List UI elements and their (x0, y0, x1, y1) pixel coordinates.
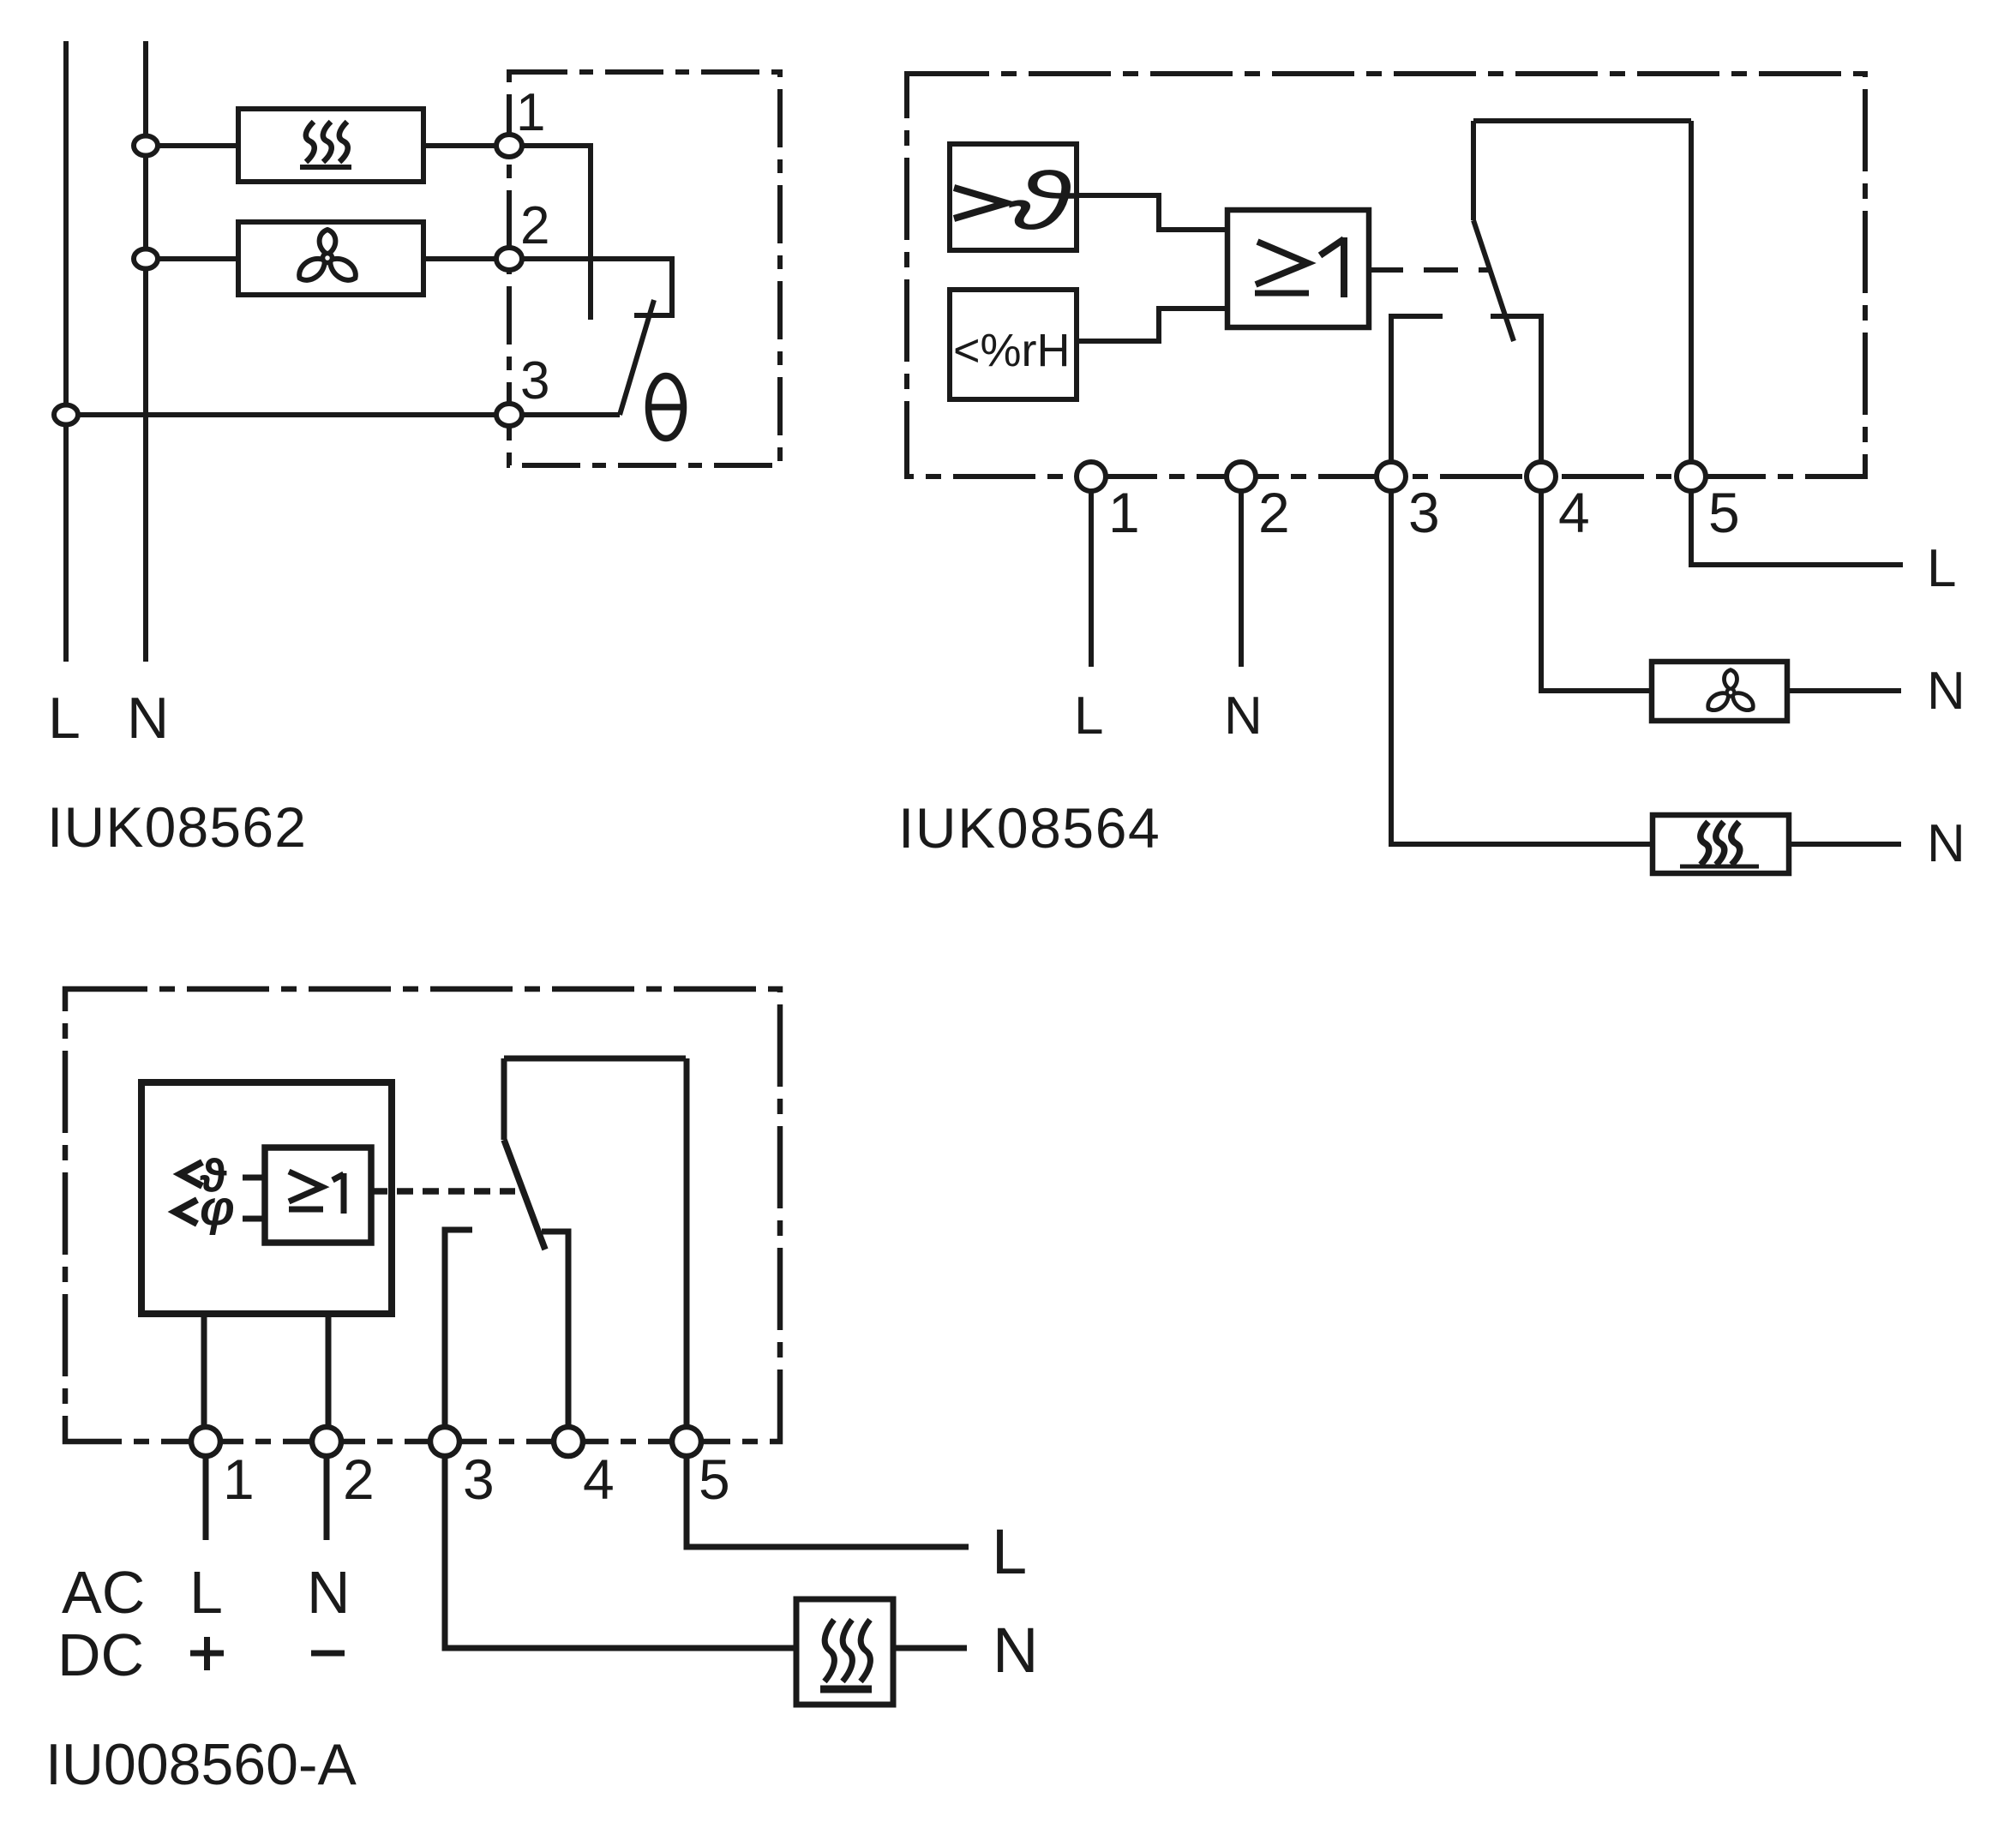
svg-text:3: 3 (463, 1447, 495, 1511)
svg-text:IUK08562: IUK08562 (47, 795, 307, 859)
svg-text:L: L (189, 1559, 223, 1626)
svg-text:1: 1 (516, 83, 545, 142)
svg-text:φ: φ (200, 1180, 235, 1236)
svg-text:5: 5 (699, 1447, 730, 1511)
svg-text:1: 1 (1108, 481, 1140, 544)
svg-text:L: L (1927, 539, 1956, 598)
svg-text:2: 2 (520, 196, 549, 255)
svg-text:N: N (1224, 686, 1263, 746)
svg-text:DC: DC (57, 1621, 144, 1688)
svg-text:ϑ: ϑ (1007, 155, 1077, 246)
svg-text:L: L (1074, 686, 1103, 746)
svg-text:<%rH: <%rH (953, 325, 1071, 376)
svg-text:1: 1 (223, 1447, 255, 1511)
svg-text:3: 3 (1408, 481, 1440, 544)
svg-text:5: 5 (1708, 481, 1740, 544)
svg-text:2: 2 (343, 1447, 375, 1511)
svg-text:L: L (992, 1516, 1027, 1587)
svg-text:AC: AC (62, 1559, 145, 1626)
svg-text:2: 2 (1258, 481, 1290, 544)
svg-text:L: L (48, 686, 81, 751)
svg-text:N: N (1927, 814, 1965, 873)
svg-text:N: N (1927, 662, 1965, 721)
svg-text:4: 4 (1558, 481, 1590, 544)
svg-text:N: N (993, 1615, 1038, 1686)
svg-text:3: 3 (520, 351, 549, 411)
svg-text:N: N (307, 1559, 351, 1626)
svg-text:N: N (127, 686, 169, 751)
svg-text:IU008560-A: IU008560-A (45, 1732, 357, 1797)
svg-text:IUK08564: IUK08564 (898, 796, 1161, 860)
svg-text:4: 4 (583, 1447, 615, 1511)
